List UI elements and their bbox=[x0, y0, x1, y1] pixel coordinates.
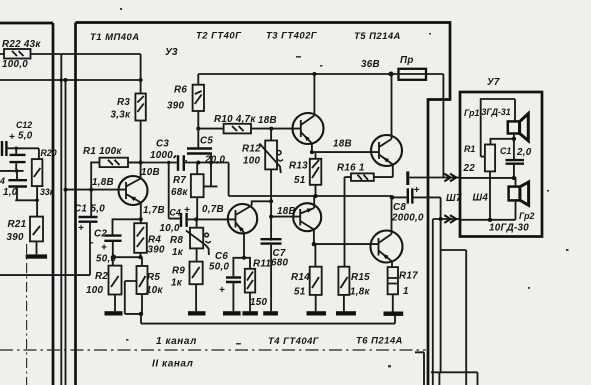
svg-text:1,0: 1,0 bbox=[3, 187, 18, 198]
svg-text:R14: R14 bbox=[291, 272, 310, 283]
svg-text:R15: R15 bbox=[351, 272, 370, 283]
T4 bottom lead / T6 base node bbox=[312, 230, 379, 247]
svg-text:18В: 18В bbox=[258, 115, 277, 126]
T4 base wire 18V bbox=[271, 206, 300, 217]
svg-text:Т4 ГТ404Г: Т4 ГТ404Г bbox=[268, 336, 320, 347]
label Sh4 bbox=[473, 193, 489, 204]
wire y80 from left edge to R3 node bbox=[0, 78, 143, 82]
wire Y2 corner down to output rail Y3 bbox=[228, 163, 230, 197]
transistor T2 GT402 bbox=[228, 204, 257, 233]
svg-text:R22 43к: R22 43к bbox=[2, 39, 41, 50]
svg-text:20,0: 20,0 bbox=[204, 155, 226, 166]
resistor R11 150 bbox=[244, 258, 271, 311]
transistor T5 P214A bbox=[371, 135, 402, 166]
label T4 GT404G bbox=[268, 336, 320, 347]
svg-text:С3: С3 bbox=[156, 139, 169, 150]
svg-text:5,0: 5,0 bbox=[18, 131, 33, 142]
svg-text:100: 100 bbox=[243, 156, 260, 167]
svg-text:С2: С2 bbox=[94, 229, 107, 240]
ground (R21) bbox=[26, 254, 47, 258]
svg-text:R7: R7 bbox=[173, 175, 186, 186]
svg-text:Т6 П214А: Т6 П214А bbox=[356, 336, 403, 347]
capacitor C12 5,0 bbox=[10, 120, 33, 170]
wire fuse down to connector bbox=[442, 74, 444, 178]
top rail +36V bbox=[198, 59, 443, 77]
svg-text:У3: У3 bbox=[165, 47, 178, 58]
svg-text:3,3к: 3,3к bbox=[111, 110, 132, 121]
svg-text:10,0: 10,0 bbox=[160, 223, 181, 234]
resistor R3 3,3k bbox=[111, 94, 146, 163]
variable resistor R8 1k bbox=[170, 219, 211, 258]
U7 inner top wire bbox=[481, 99, 515, 157]
svg-text:Пр: Пр bbox=[400, 55, 414, 66]
resistor R2 100 bbox=[86, 257, 122, 311]
resistor R16 1 bbox=[337, 163, 393, 181]
ground (R9) bbox=[188, 311, 206, 315]
bias rail R2/R5 top bbox=[111, 255, 143, 259]
ground (R14) bbox=[307, 311, 327, 315]
svg-text:R12: R12 bbox=[242, 144, 261, 155]
resistor R14 51 bbox=[291, 244, 322, 311]
svg-text:С5: С5 bbox=[200, 136, 213, 147]
svg-text:10В: 10В bbox=[141, 167, 160, 178]
svg-text:390: 390 bbox=[167, 101, 184, 112]
capacitor C5 20,0 bbox=[187, 129, 226, 166]
T2 emitter node wire bbox=[242, 233, 246, 260]
T1 emitter chain wire 1,7V bbox=[139, 202, 165, 224]
capacitor C6 50,0 bbox=[209, 251, 244, 311]
svg-text:II канал: II канал bbox=[152, 359, 194, 370]
svg-text:R5: R5 bbox=[147, 272, 160, 283]
output rail Y3 bbox=[229, 195, 392, 197]
rail Y1 18V (R6-R10-T3 base) bbox=[196, 115, 300, 131]
connector arrows Sh7 upper bbox=[444, 174, 456, 182]
svg-text:Гр2: Гр2 bbox=[519, 211, 535, 221]
resistor R15 1,8k bbox=[338, 177, 370, 311]
ground (R2) bbox=[105, 311, 123, 315]
svg-text:Т2 ГТ40Г: Т2 ГТ40Г bbox=[196, 31, 242, 42]
connector arrows Sh7 lower bbox=[444, 215, 456, 223]
svg-text:100: 100 bbox=[86, 285, 103, 296]
capacitor C4 10,0 bbox=[160, 163, 236, 235]
svg-text:+: + bbox=[78, 223, 84, 234]
transistor T1 MP40A bbox=[119, 176, 148, 205]
resistor R6 390 bbox=[167, 74, 204, 129]
rail Y2 (C3 line 10V) bbox=[128, 161, 229, 179]
T3 emitter node / T5 base wire 18V bbox=[310, 139, 379, 155]
svg-text:33к: 33к bbox=[40, 187, 55, 197]
resistor R21 390 bbox=[7, 217, 44, 255]
label T3 GT402G bbox=[266, 31, 318, 42]
label T6 P214A bbox=[356, 336, 403, 347]
svg-text:50,0: 50,0 bbox=[209, 262, 230, 273]
svg-text:R11: R11 bbox=[253, 259, 271, 270]
T2 collector wire to R12 node bbox=[252, 201, 271, 205]
svg-text:+: + bbox=[219, 285, 225, 296]
svg-text:2000,0: 2000,0 bbox=[391, 213, 424, 224]
svg-text:Ш4: Ш4 bbox=[473, 193, 489, 204]
capacitor at left edge (cut) bbox=[2, 132, 39, 156]
svg-text:1,8к: 1,8к bbox=[350, 287, 371, 298]
svg-text:+: + bbox=[414, 185, 420, 196]
wire R22 corner down to R3 bbox=[140, 54, 142, 94]
fuse Pr bbox=[396, 55, 427, 80]
output node dot bbox=[390, 195, 407, 200]
svg-text:Т1 МП40А: Т1 МП40А bbox=[90, 32, 140, 43]
left unit box frame bbox=[0, 23, 53, 385]
svg-text:R20: R20 bbox=[41, 148, 57, 158]
svg-text:С4: С4 bbox=[170, 208, 181, 218]
svg-text:1к: 1к bbox=[172, 247, 184, 258]
speaker Gr1 3GD-31 bbox=[464, 99, 528, 159]
capacitor C1 2,0 (U7) bbox=[500, 146, 532, 180]
svg-text:С8: С8 bbox=[393, 202, 406, 213]
label U3 bbox=[165, 47, 178, 58]
speaker Gr2 10GD-30 bbox=[489, 182, 535, 234]
svg-text:36В: 36В bbox=[361, 59, 380, 70]
svg-text:R8: R8 bbox=[170, 235, 183, 246]
transistor T4 GT404G bbox=[293, 203, 321, 231]
svg-text:R17: R17 bbox=[399, 271, 418, 282]
svg-text:1 канал: 1 канал bbox=[156, 336, 197, 347]
svg-text:С6: С6 bbox=[215, 251, 228, 262]
capacitor C7 680 bbox=[261, 239, 289, 311]
svg-text:5,0: 5,0 bbox=[91, 204, 106, 215]
svg-text:150: 150 bbox=[250, 297, 267, 308]
label Sh7 bbox=[446, 193, 462, 204]
ground (C6) bbox=[223, 311, 241, 315]
svg-text:R1 100к: R1 100к bbox=[83, 146, 122, 157]
amplifier unit U3 box frame bbox=[76, 23, 451, 385]
svg-text:3ГД-31: 3ГД-31 bbox=[482, 107, 511, 117]
svg-text:С1: С1 bbox=[74, 204, 87, 215]
capacitor C3 1000 bbox=[150, 139, 184, 171]
svg-text:10к: 10к bbox=[146, 285, 163, 296]
label 1 kanal bbox=[156, 336, 197, 347]
svg-text:390: 390 bbox=[7, 232, 24, 243]
svg-text:51: 51 bbox=[294, 175, 306, 186]
transistor T3 GT402G bbox=[293, 113, 324, 144]
ground (C7) bbox=[263, 311, 278, 315]
svg-text:0,7В: 0,7В bbox=[202, 204, 224, 215]
resistor R20 33k bbox=[32, 148, 57, 217]
svg-text:4: 4 bbox=[0, 176, 5, 186]
wire y275 to left edge bbox=[0, 274, 90, 276]
svg-text:10ГД-30: 10ГД-30 bbox=[489, 223, 529, 234]
resistor R1 100k bbox=[83, 146, 141, 190]
svg-text:Гр1: Гр1 bbox=[464, 108, 480, 118]
svg-text:R16 1: R16 1 bbox=[337, 163, 365, 174]
svg-text:22: 22 bbox=[463, 163, 476, 174]
svg-text:51: 51 bbox=[294, 287, 306, 298]
svg-text:С1: С1 bbox=[500, 146, 511, 156]
label T1 MP40A bbox=[90, 32, 140, 43]
svg-text:680: 680 bbox=[271, 258, 288, 269]
connector pin wires lower bbox=[433, 197, 460, 372]
svg-text:+: + bbox=[9, 132, 15, 143]
T1 base wire bbox=[64, 177, 127, 192]
ground (R15) bbox=[336, 311, 356, 315]
bus wire A (vertical) bbox=[60, 54, 64, 385]
resistor R10 4,7k bbox=[214, 114, 256, 133]
svg-text:R21: R21 bbox=[8, 219, 27, 230]
svg-text:R6: R6 bbox=[174, 85, 187, 96]
label 2 kanal bbox=[152, 359, 194, 370]
resistor R1 22 (U7) bbox=[463, 139, 514, 220]
svg-text:1: 1 bbox=[403, 286, 409, 297]
svg-text:1к: 1к bbox=[171, 278, 183, 289]
svg-text:1000: 1000 bbox=[150, 150, 173, 161]
svg-text:R13: R13 bbox=[289, 161, 308, 172]
ground return rail bbox=[141, 314, 395, 324]
svg-text:2,0: 2,0 bbox=[516, 147, 532, 158]
T6 collector wire to output node bbox=[391, 197, 393, 234]
scan speckles bbox=[91, 8, 569, 367]
bottom right wiring web bbox=[415, 219, 478, 385]
label T2 GT40G bbox=[196, 31, 242, 42]
svg-text:R3: R3 bbox=[117, 97, 130, 108]
transistor T6 P214A bbox=[371, 231, 403, 263]
svg-text:С12: С12 bbox=[16, 120, 32, 130]
svg-text:18В: 18В bbox=[277, 206, 296, 217]
svg-text:1,8В: 1,8В bbox=[92, 177, 114, 188]
capacitor C8 2000,0 bbox=[391, 185, 441, 224]
svg-text:R1: R1 bbox=[464, 144, 475, 154]
resistor R13 51 bbox=[289, 152, 321, 198]
speaker unit U7 box bbox=[460, 77, 542, 237]
capacitor 1,0 bbox=[0, 171, 37, 200]
dash-dot channel divider vertical bbox=[26, 244, 28, 385]
bus wire B (vertical) bbox=[65, 80, 67, 385]
svg-text:У7: У7 bbox=[487, 77, 500, 88]
svg-text:1,7В: 1,7В bbox=[143, 205, 165, 216]
U7 lower pin wire bbox=[460, 218, 516, 222]
capacitor C2 50,0 bbox=[94, 219, 141, 264]
svg-text:68к: 68к bbox=[171, 187, 188, 198]
variable resistor R12 100 bbox=[242, 129, 283, 241]
resistor R9 1k bbox=[171, 248, 203, 311]
T4 top lead to output rail bbox=[313, 196, 315, 208]
T5 emitter wire bbox=[392, 165, 394, 178]
resistor R4 390 bbox=[134, 223, 165, 257]
T3 collector wire bbox=[313, 74, 315, 116]
channel divider dash-dot line bbox=[0, 349, 426, 351]
svg-text:18В: 18В bbox=[333, 139, 352, 150]
svg-text:R2: R2 bbox=[95, 271, 108, 282]
svg-text:Т5 П214А: Т5 П214А bbox=[354, 31, 401, 42]
ground (R11) bbox=[242, 311, 258, 315]
resistor R7 68k bbox=[171, 155, 218, 220]
resistor R17 1 bbox=[388, 262, 419, 312]
label T5 P214A bbox=[354, 31, 401, 42]
svg-text:+: + bbox=[101, 243, 107, 254]
wire y171 to left edge bbox=[0, 169, 24, 173]
svg-text:Т3 ГТ402Г: Т3 ГТ402Г bbox=[266, 31, 318, 42]
T5 collector wire bbox=[391, 74, 393, 139]
ground (R17) bbox=[384, 312, 404, 316]
capacitor C1 5,0 bbox=[74, 190, 105, 276]
T1 collector wire bbox=[140, 163, 142, 180]
U7 upper pin wire bbox=[460, 178, 516, 187]
svg-text:100,0: 100,0 bbox=[2, 59, 28, 70]
resistor R22 43k bbox=[0, 39, 141, 70]
capacitor plate channel-2 (upper) bbox=[408, 171, 460, 185]
svg-text:390: 390 bbox=[148, 245, 165, 256]
resistor R5 10k with tap bbox=[125, 257, 164, 316]
svg-text:R9: R9 bbox=[172, 266, 185, 277]
